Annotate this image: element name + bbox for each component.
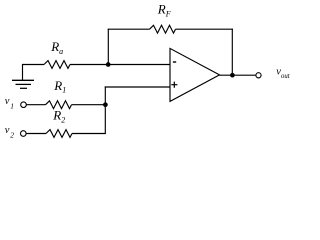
- terminal v2 open circle: [21, 131, 27, 137]
- wire v2 to R2: [26, 133, 46, 135]
- node A junction dot: [106, 62, 111, 67]
- svg-text:v1: v1: [5, 96, 14, 110]
- wire Ra to node A: [70, 64, 108, 66]
- wire v1 to R1: [26, 104, 45, 106]
- wire feedback left vertical: [107, 29, 109, 65]
- wire ground to Ra: [22, 64, 44, 66]
- resistor R1: [46, 101, 72, 109]
- resistor Ra: [44, 61, 70, 69]
- svg-text:v2: v2: [5, 125, 14, 139]
- svg-text:Ra: Ra: [50, 39, 63, 56]
- wire feedback right vertical: [231, 29, 233, 76]
- op-amp U1: [170, 48, 220, 101]
- wire feedback top left: [108, 28, 150, 30]
- terminal v1 open circle: [21, 102, 27, 108]
- wire to op-amp noninverting input: [105, 86, 170, 88]
- resistor RF: [150, 25, 176, 33]
- node B junction dot: [230, 73, 235, 78]
- wire R2 to vertical branch: [72, 133, 106, 135]
- wire feedback top right: [176, 28, 233, 30]
- svg-text:R1: R1: [53, 78, 66, 95]
- ground: [12, 65, 34, 89]
- node C junction dot: [103, 102, 108, 107]
- wire R1 to node C: [72, 104, 106, 106]
- resistor R2: [46, 130, 72, 138]
- terminal vout open circle: [256, 73, 261, 78]
- wire vertical v2 branch to plus input: [104, 86, 106, 133]
- svg-text:RF: RF: [157, 2, 171, 19]
- wire op-amp output: [220, 74, 256, 76]
- wire node A to op-amp inverting input: [108, 64, 170, 66]
- svg-text:R2: R2: [52, 107, 65, 124]
- svg-text:vout: vout: [276, 67, 290, 80]
